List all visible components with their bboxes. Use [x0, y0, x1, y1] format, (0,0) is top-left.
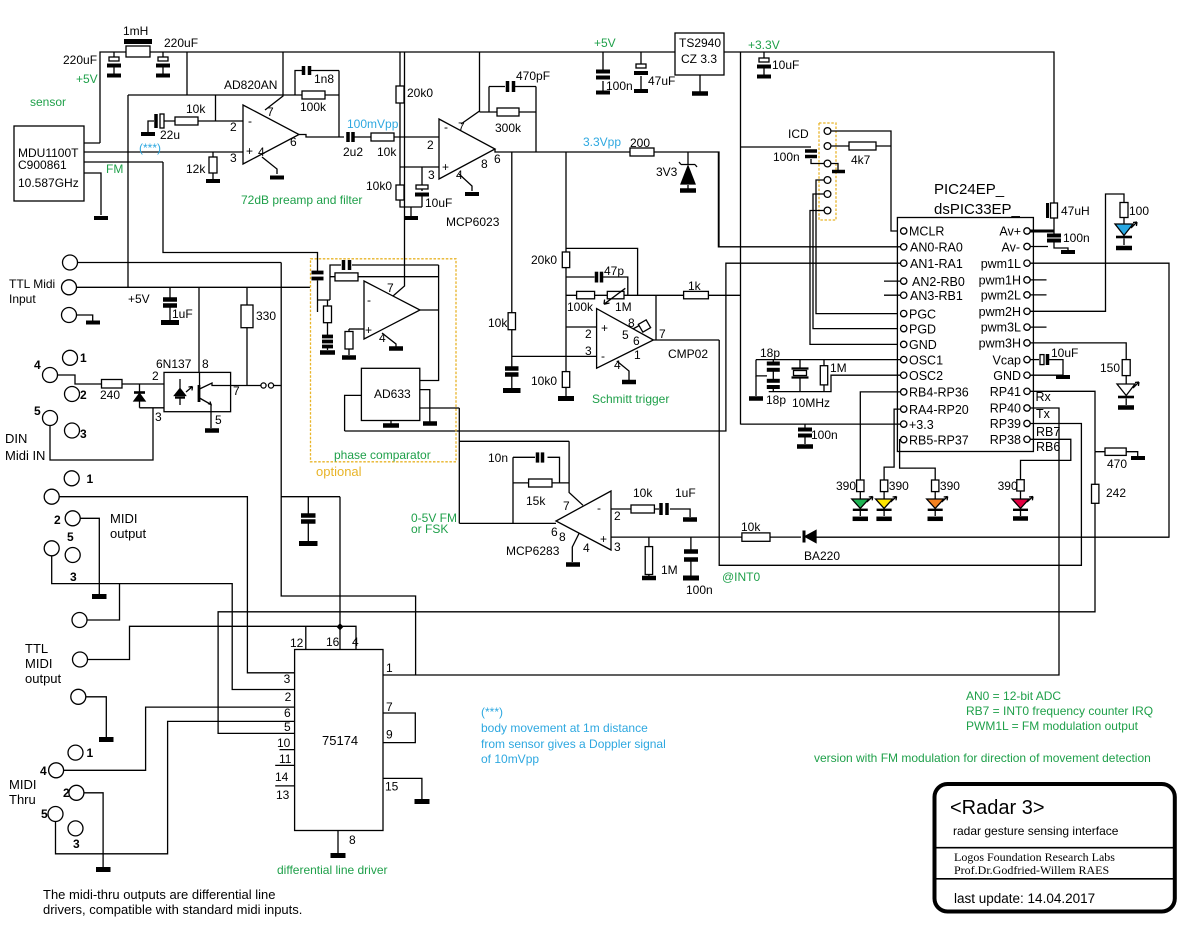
svg-text:220uF: 220uF [164, 36, 198, 50]
svg-text:18p: 18p [760, 346, 780, 360]
svg-text:differential line driver: differential line driver [277, 863, 388, 877]
svg-text:output: output [25, 671, 62, 686]
svg-text:1: 1 [80, 351, 87, 365]
svg-text:4: 4 [583, 541, 590, 555]
svg-text:AN3-RB1: AN3-RB1 [910, 289, 963, 303]
svg-text:100n: 100n [811, 428, 838, 442]
svg-text:MCP6023: MCP6023 [446, 215, 500, 229]
svg-text:10.587GHz: 10.587GHz [18, 176, 79, 190]
svg-text:-: - [367, 293, 371, 307]
svg-text:7: 7 [267, 105, 274, 119]
svg-text:1: 1 [634, 348, 641, 362]
svg-text:3: 3 [80, 427, 87, 441]
svg-text:4: 4 [34, 358, 41, 372]
svg-text:RB7 = INT0 frequency counter I: RB7 = INT0 frequency counter IRQ [966, 704, 1153, 718]
svg-text:MIDI: MIDI [25, 656, 52, 671]
svg-text:1k: 1k [688, 279, 702, 293]
svg-text:13: 13 [276, 788, 290, 802]
svg-text:AN1-RA1: AN1-RA1 [910, 257, 963, 271]
svg-text:3: 3 [70, 570, 77, 584]
svg-text:2: 2 [285, 690, 292, 704]
svg-text:Tx: Tx [1036, 407, 1051, 421]
svg-text:of 10mVpp: of 10mVpp [481, 752, 539, 766]
svg-text:6: 6 [551, 525, 558, 539]
svg-text:10k: 10k [633, 486, 653, 500]
svg-text:75174: 75174 [322, 733, 358, 748]
svg-text:10k: 10k [741, 520, 761, 534]
svg-text:Av+: Av+ [999, 225, 1021, 239]
svg-text:<Radar 3>: <Radar 3> [950, 797, 1045, 819]
svg-text:optional: optional [316, 464, 362, 479]
svg-text:RB7: RB7 [1036, 425, 1060, 439]
svg-text:4: 4 [379, 331, 386, 345]
svg-text:8: 8 [202, 357, 209, 371]
svg-text:100n: 100n [1063, 231, 1090, 245]
svg-text:3: 3 [585, 344, 592, 358]
svg-text:+: + [600, 532, 607, 546]
svg-text:output: output [110, 526, 147, 541]
svg-text:+3.3V: +3.3V [748, 38, 780, 52]
svg-text:11: 11 [279, 752, 292, 766]
svg-text:1uF: 1uF [172, 307, 193, 321]
svg-text:100: 100 [1129, 204, 1149, 218]
svg-text:(***): (***) [139, 141, 161, 155]
svg-text:Av-: Av- [1001, 241, 1020, 255]
svg-text:3: 3 [155, 410, 162, 424]
svg-text:10n: 10n [488, 451, 508, 465]
svg-text:2u2: 2u2 [343, 145, 363, 159]
svg-text:20k0: 20k0 [407, 86, 433, 100]
svg-text:1: 1 [386, 661, 393, 675]
svg-text:10uF: 10uF [772, 58, 799, 72]
svg-text:1n8: 1n8 [314, 72, 334, 86]
svg-text:47p: 47p [604, 264, 624, 278]
svg-text:390: 390 [836, 479, 856, 493]
svg-text:sensor: sensor [30, 95, 66, 109]
svg-text:body movement at 1m distance: body movement at 1m distance [481, 721, 648, 735]
svg-text:radar gesture sensing interfac: radar gesture sensing interface [953, 824, 1119, 838]
svg-text:-: - [248, 114, 252, 128]
svg-text:RP41: RP41 [990, 385, 1021, 399]
svg-text:2: 2 [230, 120, 237, 134]
svg-text:pwm3H: pwm3H [979, 337, 1021, 351]
svg-text:200: 200 [630, 136, 650, 150]
svg-text:100k: 100k [300, 100, 327, 114]
svg-text:The midi-thru outputs are diff: The midi-thru outputs are differential l… [43, 887, 275, 902]
svg-text:(***): (***) [481, 705, 503, 719]
svg-text:MIDI: MIDI [9, 777, 36, 792]
svg-text:3: 3 [284, 672, 291, 686]
svg-text:+5V: +5V [128, 292, 150, 306]
svg-text:Midi IN: Midi IN [5, 448, 45, 463]
svg-text:10k0: 10k0 [366, 179, 392, 193]
svg-text:+5V: +5V [76, 72, 98, 86]
svg-text:240: 240 [100, 388, 120, 402]
svg-text:1: 1 [87, 746, 94, 760]
svg-text:6: 6 [284, 706, 291, 720]
svg-text:7: 7 [563, 499, 570, 513]
svg-text:@INT0: @INT0 [722, 570, 761, 584]
svg-text:CZ 3.3: CZ 3.3 [681, 52, 717, 66]
svg-text:3: 3 [428, 168, 435, 182]
svg-text:1mH: 1mH [123, 24, 148, 38]
svg-text:100mVpp: 100mVpp [347, 117, 399, 131]
svg-text:2: 2 [80, 388, 87, 402]
svg-text:from sensor gives a Doppler si: from sensor gives a Doppler signal [481, 737, 666, 751]
svg-text:10k: 10k [488, 316, 508, 330]
svg-text:4k7: 4k7 [851, 153, 871, 167]
svg-text:RP39: RP39 [990, 417, 1021, 431]
svg-text:MIDI: MIDI [110, 511, 137, 526]
svg-text:AN2-RB0: AN2-RB0 [912, 275, 965, 289]
svg-text:220uF: 220uF [63, 53, 97, 67]
svg-text:pwm1L: pwm1L [981, 257, 1021, 271]
svg-text:RP38: RP38 [990, 433, 1021, 447]
svg-text:3: 3 [230, 151, 237, 165]
svg-text:8: 8 [349, 833, 356, 847]
svg-text:5: 5 [215, 413, 222, 427]
svg-text:1: 1 [87, 472, 94, 486]
svg-text:4: 4 [258, 145, 265, 159]
svg-text:2: 2 [63, 786, 70, 800]
svg-text:OSC1: OSC1 [909, 354, 943, 368]
svg-text:1M: 1M [830, 361, 847, 375]
svg-text:4: 4 [456, 168, 463, 182]
svg-text:2: 2 [54, 513, 61, 527]
svg-text:CMP02: CMP02 [668, 347, 708, 361]
svg-text:AN0-RA0: AN0-RA0 [910, 241, 963, 255]
svg-text:-: - [597, 501, 601, 515]
svg-text:10k: 10k [186, 102, 206, 116]
svg-text:-: - [601, 349, 605, 363]
svg-text:390: 390 [940, 479, 960, 493]
svg-text:OSC2: OSC2 [909, 369, 943, 383]
svg-text:4: 4 [40, 764, 47, 778]
svg-text:47uH: 47uH [1061, 204, 1090, 218]
svg-text:20k0: 20k0 [531, 253, 557, 267]
svg-text:10uF: 10uF [1051, 346, 1078, 360]
svg-text:7: 7 [659, 327, 666, 341]
svg-text:1M: 1M [615, 300, 632, 314]
svg-text:2: 2 [585, 327, 592, 341]
svg-text:100k: 100k [567, 300, 594, 314]
svg-text:3V3: 3V3 [656, 165, 678, 179]
svg-text:390: 390 [889, 479, 909, 493]
svg-text:10k0: 10k0 [531, 374, 557, 388]
svg-text:pwm1H: pwm1H [979, 274, 1021, 288]
svg-text:5: 5 [41, 807, 48, 821]
svg-text:RB6: RB6 [1036, 440, 1060, 454]
svg-text:+: + [246, 144, 253, 158]
svg-text:Logos Foundation Research Labs: Logos Foundation Research Labs [954, 850, 1115, 864]
svg-text:AD633: AD633 [374, 387, 411, 401]
svg-text:6: 6 [633, 334, 640, 348]
svg-text:7: 7 [233, 384, 240, 398]
svg-text:AN0 = 12-bit ADC: AN0 = 12-bit ADC [966, 689, 1061, 703]
svg-text:16: 16 [326, 635, 340, 649]
svg-text:5: 5 [622, 328, 629, 342]
svg-text:drivers, compatible with stand: drivers, compatible with standard midi i… [43, 902, 302, 917]
svg-text:2: 2 [427, 138, 434, 152]
svg-text:1M: 1M [661, 563, 678, 577]
svg-text:100n: 100n [606, 79, 633, 93]
svg-text:DIN: DIN [5, 431, 27, 446]
svg-text:pwm2L: pwm2L [981, 289, 1021, 303]
svg-text:Rx: Rx [1036, 390, 1052, 404]
svg-text:470pF: 470pF [516, 69, 550, 83]
svg-text:9: 9 [386, 728, 393, 742]
svg-text:Schmitt trigger: Schmitt trigger [592, 392, 669, 406]
svg-text:TTL: TTL [25, 641, 48, 656]
svg-text:+3.3: +3.3 [909, 418, 934, 432]
svg-text:2: 2 [152, 369, 159, 383]
svg-text:RB4-RP36: RB4-RP36 [909, 386, 969, 400]
svg-text:+5V: +5V [594, 36, 616, 50]
svg-text:100n: 100n [686, 583, 713, 597]
svg-text:4: 4 [614, 358, 621, 372]
svg-text:Prof.Dr.Godfried-Willem RAES: Prof.Dr.Godfried-Willem RAES [954, 863, 1109, 877]
svg-text:+: + [601, 321, 608, 335]
svg-text:300k: 300k [495, 121, 522, 135]
svg-text:6N137: 6N137 [156, 357, 192, 371]
svg-text:PIC24EP_: PIC24EP_ [934, 181, 1005, 198]
svg-text:ICD: ICD [788, 127, 809, 141]
svg-text:72dB preamp and filter: 72dB preamp and filter [241, 193, 362, 207]
svg-text:RP40: RP40 [990, 402, 1021, 416]
svg-text:-: - [444, 120, 448, 134]
svg-text:MCP6283: MCP6283 [506, 544, 560, 558]
svg-text:7: 7 [387, 281, 394, 295]
svg-text:7: 7 [386, 700, 393, 714]
svg-text:18p: 18p [766, 393, 786, 407]
svg-text:47uF: 47uF [648, 74, 675, 88]
svg-text:dsPIC33EP_: dsPIC33EP_ [934, 201, 1021, 218]
svg-text:FM: FM [106, 162, 123, 176]
svg-text:version with FM modulation for: version with FM modulation for direction… [814, 751, 1151, 765]
svg-text:8: 8 [559, 530, 566, 544]
svg-text:Thru: Thru [9, 792, 36, 807]
svg-text:+: + [442, 160, 449, 174]
svg-text:GND: GND [909, 338, 937, 352]
svg-text:AD820AN: AD820AN [224, 78, 277, 92]
svg-text:PWM1L = FM modulation output: PWM1L = FM modulation output [966, 719, 1139, 733]
svg-text:15: 15 [385, 780, 399, 794]
svg-text:6: 6 [290, 135, 297, 149]
svg-text:+: + [365, 323, 372, 337]
svg-text:C900861: C900861 [18, 158, 67, 172]
svg-text:Vcap: Vcap [993, 354, 1022, 368]
svg-text:12k: 12k [186, 162, 206, 176]
svg-text:pwm2H: pwm2H [979, 305, 1021, 319]
svg-text:MCLR: MCLR [909, 225, 944, 239]
svg-text:12: 12 [290, 636, 304, 650]
svg-text:330: 330 [256, 309, 276, 323]
svg-text:14: 14 [275, 770, 289, 784]
svg-text:pwm3L: pwm3L [981, 321, 1021, 335]
svg-text:phase comparator: phase comparator [334, 448, 431, 462]
svg-text:15k: 15k [526, 494, 546, 508]
svg-text:TTL Midi: TTL Midi [9, 277, 55, 291]
svg-text:10uF: 10uF [425, 196, 452, 210]
svg-text:22u: 22u [160, 128, 180, 142]
svg-text:8: 8 [628, 316, 635, 330]
svg-text:5: 5 [34, 404, 41, 418]
svg-text:3: 3 [614, 540, 621, 554]
svg-text:PGC: PGC [909, 308, 936, 322]
svg-text:Input: Input [9, 292, 36, 306]
svg-text:BA220: BA220 [804, 549, 840, 563]
svg-text:5: 5 [67, 530, 74, 544]
svg-text:242: 242 [1106, 486, 1126, 500]
svg-text:PGD: PGD [909, 323, 936, 337]
svg-text:3.3Vpp: 3.3Vpp [583, 135, 621, 149]
svg-text:1uF: 1uF [675, 486, 696, 500]
svg-text:10: 10 [277, 736, 291, 750]
svg-text:RB5-RP37: RB5-RP37 [909, 434, 969, 448]
svg-text:4: 4 [352, 635, 359, 649]
svg-text:last update: 14.04.2017: last update: 14.04.2017 [954, 891, 1095, 906]
svg-text:or FSK: or FSK [411, 522, 448, 536]
svg-text:10k: 10k [377, 145, 397, 159]
svg-text:RA4-RP20: RA4-RP20 [909, 403, 969, 417]
svg-text:8: 8 [481, 157, 488, 171]
svg-text:150: 150 [1100, 361, 1120, 375]
svg-text:100n: 100n [773, 150, 800, 164]
svg-text:5: 5 [284, 720, 291, 734]
svg-text:3: 3 [73, 837, 80, 851]
svg-text:6: 6 [494, 152, 501, 166]
svg-text:2: 2 [614, 509, 621, 523]
svg-text:GND: GND [993, 369, 1021, 383]
svg-text:TS2940: TS2940 [679, 36, 721, 50]
svg-text:470: 470 [1107, 457, 1127, 471]
svg-text:7: 7 [458, 120, 465, 134]
svg-text:10MHz: 10MHz [792, 396, 830, 410]
svg-text:390: 390 [998, 479, 1018, 493]
